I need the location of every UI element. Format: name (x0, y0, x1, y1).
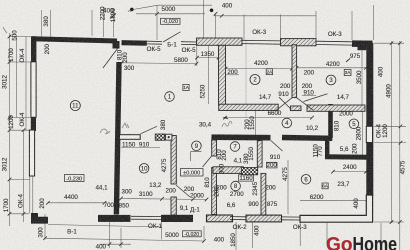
svg-text:Go: Go (326, 234, 353, 250)
svg-text:Home: Home (353, 234, 398, 250)
